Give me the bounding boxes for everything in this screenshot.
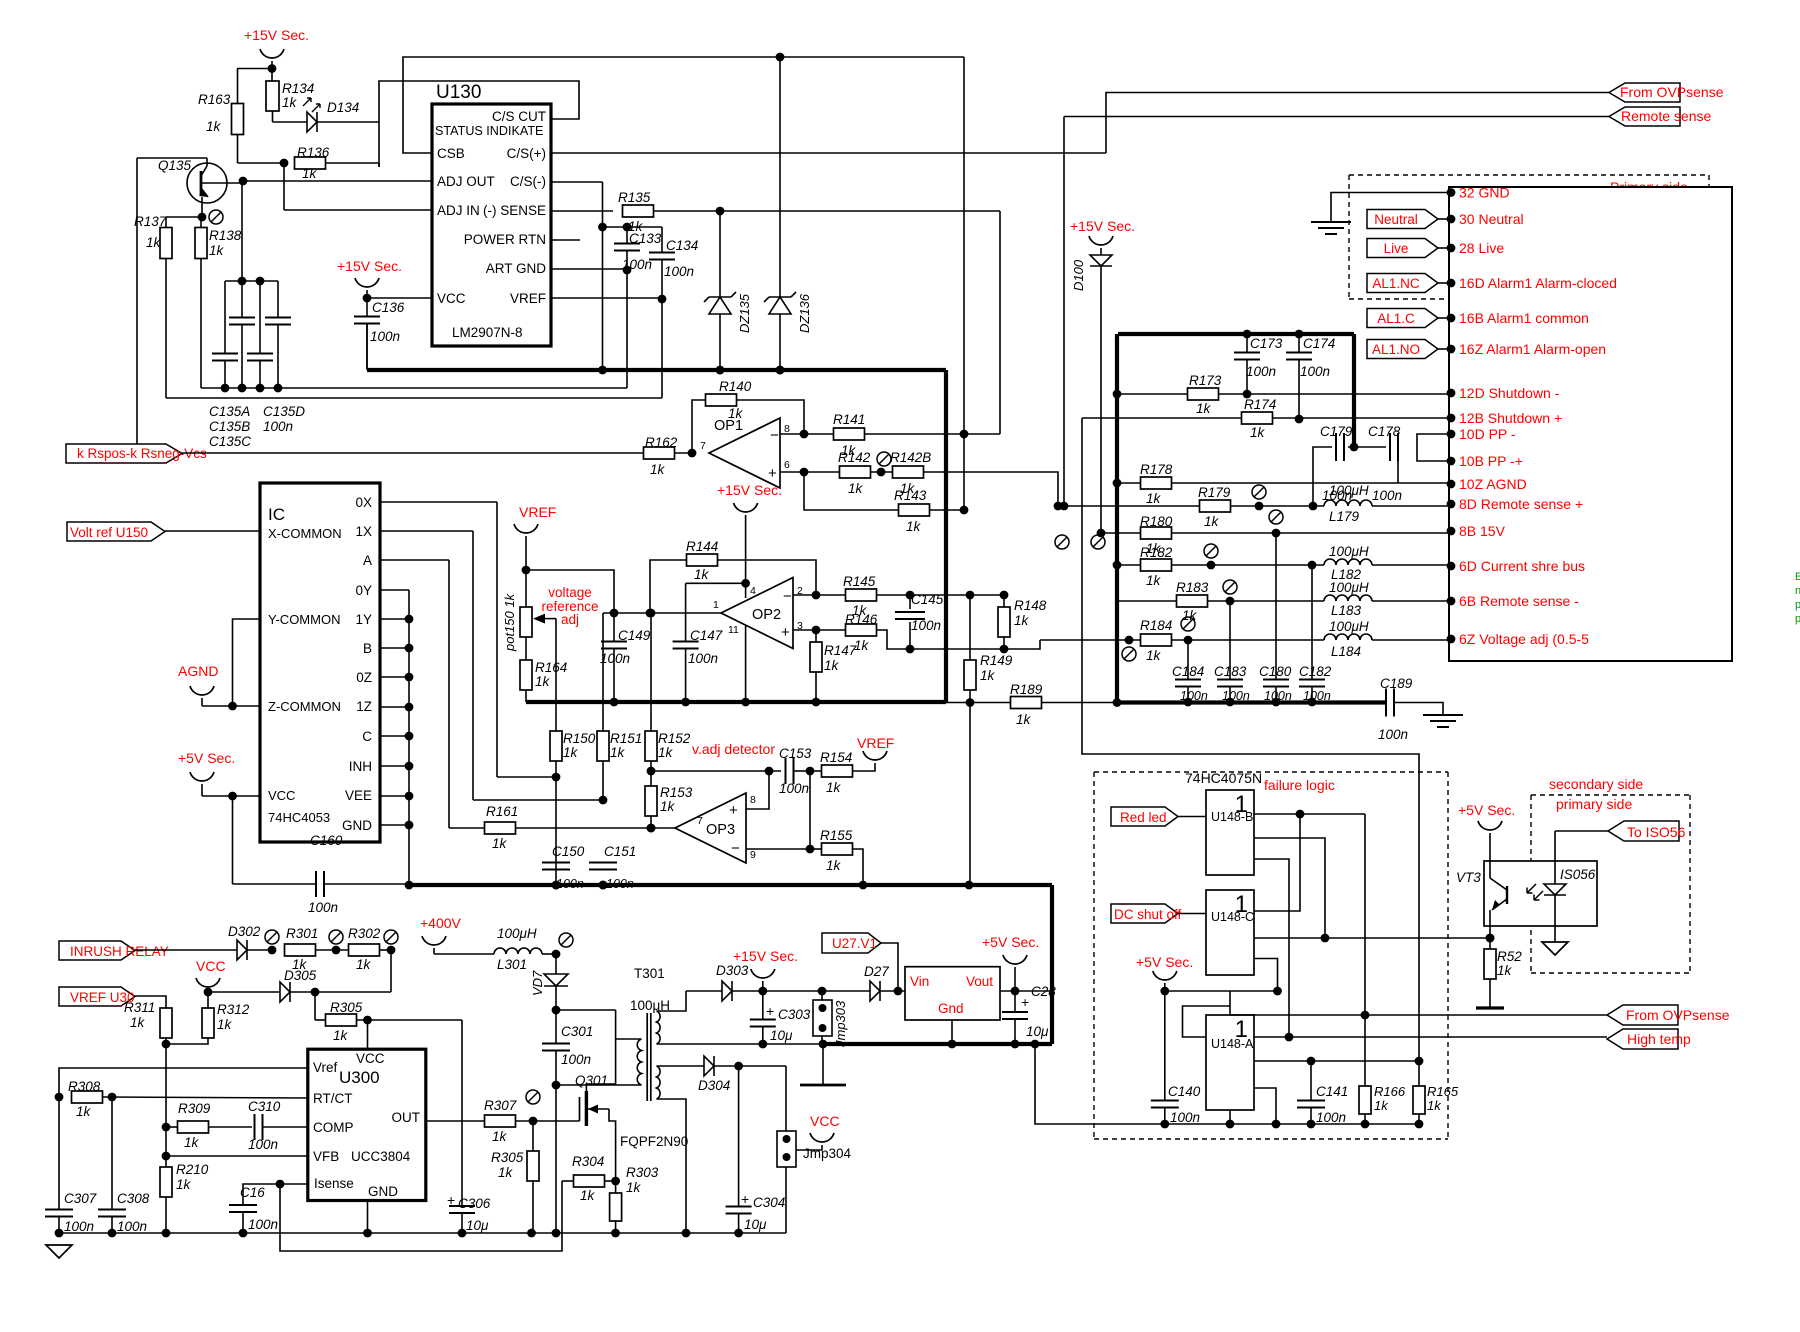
wire POWER RTN stub (551, 239, 580, 241)
svg-text:INH: INH (349, 759, 372, 774)
svg-text:1k: 1k (209, 243, 225, 258)
wire 0X (380, 501, 497, 503)
svg-text:From OVPsense: From OVPsense (1620, 84, 1724, 100)
svg-text:B: B (363, 641, 372, 656)
svg-text:High temp: High temp (1627, 1031, 1691, 1047)
opto LED arrows (1527, 884, 1536, 893)
svg-text:+: + (781, 624, 790, 641)
jumper Jmp304 (785, 1066, 787, 1131)
svg-text:VCC: VCC (810, 1113, 840, 1129)
svg-text:10Z AGND: 10Z AGND (1459, 476, 1527, 492)
svg-text:R303: R303 (626, 1165, 659, 1180)
svg-text:Vout: Vout (966, 974, 993, 989)
svg-text:1k: 1k (626, 1180, 642, 1195)
svg-text:16D Alarm1 Alarm-cloced: 16D Alarm1 Alarm-cloced (1459, 275, 1617, 291)
svg-text:100n: 100n (248, 1217, 278, 1232)
svg-text:Z-COMMON: Z-COMMON (268, 699, 341, 714)
LED D134 (307, 112, 317, 132)
svg-text:R141: R141 (833, 412, 865, 427)
svg-text:(-) SENSE: (-) SENSE (483, 203, 546, 218)
wire OP2 plus input (793, 629, 816, 631)
svg-text:1k: 1k (980, 668, 996, 683)
net flag AL1.C (1367, 309, 1438, 328)
svg-text:R140: R140 (719, 379, 752, 394)
svg-text:Vin: Vin (910, 974, 929, 989)
svg-text:R302: R302 (348, 926, 381, 941)
dashed secondary/primary boundary (1531, 794, 1690, 796)
svg-text:C135A: C135A (209, 404, 250, 419)
svg-text:n: n (1795, 585, 1800, 597)
svg-text:R52: R52 (1497, 949, 1522, 964)
wire corridor vertical x1064 (to 8D) (1063, 117, 1065, 507)
net flag Volt ref U150 (67, 522, 165, 541)
svg-text:C/S(+): C/S(+) (507, 146, 546, 161)
dashed box Primary side isolation (1349, 174, 1709, 176)
svg-text:1: 1 (713, 599, 719, 611)
wire U148-C stub route to +5V rail (1254, 959, 1278, 992)
svg-text:R311: R311 (124, 1000, 155, 1015)
svg-text:ADJ OUT: ADJ OUT (437, 174, 495, 189)
svg-text:100n: 100n (1170, 1110, 1200, 1125)
wire U148-B in3 route (1254, 859, 1289, 1037)
wire C/S(+) to Remote corridor (551, 152, 1106, 154)
wire D134 cathode to net (317, 121, 379, 123)
wire 0X net to R150 (497, 776, 556, 778)
wire U148-C output to VT3 (1254, 937, 1490, 939)
wire 6D node down to C182 (1311, 565, 1313, 679)
svg-text:100n: 100n (1372, 488, 1402, 503)
svg-text:U300: U300 (339, 1068, 380, 1087)
wire R134 to D134 (272, 111, 274, 122)
wire Vref pin (59, 1068, 308, 1097)
wire corridor vertical x964 (963, 57, 965, 510)
svg-text:100μH: 100μH (1329, 544, 1369, 559)
svg-text:100n: 100n (664, 264, 694, 279)
svg-text:1k: 1k (826, 858, 842, 873)
svg-text:+5V Sec.: +5V Sec. (1458, 802, 1515, 818)
svg-text:LM2907N-8: LM2907N-8 (452, 325, 523, 340)
wire VD7 node to drain riser (556, 1009, 616, 1011)
svg-text:R135: R135 (618, 190, 651, 205)
wire From OVPsense (1106, 93, 1609, 154)
capacitor C136 (363, 294, 372, 303)
svg-text:100n: 100n (561, 1052, 591, 1067)
svg-text:C134: C134 (666, 238, 698, 253)
svg-text:C135D: C135D (263, 404, 305, 419)
IC U300 UCC3804 (308, 1049, 426, 1200)
zener DZ135 (709, 296, 731, 298)
svg-text:1k: 1k (906, 519, 922, 534)
wire Jmp304 to bottom bus (785, 1167, 787, 1233)
svg-text:+5V Sec.: +5V Sec. (178, 750, 235, 766)
svg-text:1k: 1k (563, 745, 579, 760)
svg-text:+15V Sec.: +15V Sec. (244, 27, 309, 43)
wire thick bus y334 (1118, 332, 1354, 336)
svg-text:1k: 1k (498, 1165, 514, 1180)
svg-text:U148-B: U148-B (1211, 810, 1253, 824)
wire thick bus1 y702 left segment (526, 700, 946, 704)
svg-text:R210: R210 (176, 1162, 209, 1177)
wire U148-A stub y1088 to ground (1254, 1088, 1276, 1124)
svg-text:100n: 100n (1316, 1110, 1346, 1125)
net flag High temp (1607, 1029, 1678, 1049)
wire OP2 V+ pin4 (741, 579, 750, 588)
svg-text:+15V Sec.: +15V Sec. (717, 482, 782, 498)
net flag AL1.NO (1367, 340, 1438, 359)
svg-text:E: E (1795, 571, 1800, 583)
capacitor C306 (461, 1020, 463, 1206)
connector pin 16B Alarm1 common (1447, 314, 1456, 323)
svg-text:100n: 100n (263, 419, 293, 434)
connector pin 16D Alarm1 Alarm-cloced (1447, 279, 1456, 288)
svg-text:VCC: VCC (268, 788, 295, 803)
svg-text:U148-A: U148-A (1211, 1037, 1254, 1051)
svg-text:1k: 1k (610, 745, 626, 760)
wire U148-B output (1254, 813, 1365, 815)
connector pin 6Z Voltage adj (0.5-5 (1447, 635, 1456, 644)
capacitors C135A-C135D bank (241, 181, 243, 281)
svg-text:OP2: OP2 (752, 607, 781, 623)
wire Y-COMMON link (233, 619, 261, 706)
svg-text:1k: 1k (854, 638, 870, 653)
svg-text:1k: 1k (1146, 648, 1162, 663)
svg-text:C135B: C135B (209, 419, 250, 434)
svg-text:+: + (741, 1191, 749, 1207)
svg-text:6D Current shre bus: 6D Current shre bus (1459, 558, 1585, 574)
wire Vout node (1000, 990, 1051, 992)
svg-text:R147: R147 (824, 643, 857, 658)
svg-text:C135C: C135C (209, 434, 251, 449)
svg-text:Gnd: Gnd (938, 1001, 964, 1016)
svg-text:DC shut off: DC shut off (1114, 907, 1182, 922)
svg-text:U130: U130 (436, 82, 481, 103)
svg-text:VCC: VCC (196, 958, 226, 974)
connector J1 box (1449, 187, 1732, 661)
svg-text:28 Live: 28 Live (1459, 240, 1504, 256)
wire 10D/10B PP loop (1417, 434, 1451, 461)
svg-text:−: − (783, 588, 792, 605)
connector pin 16Z Alarm1 Alarm-open (1447, 345, 1456, 354)
svg-text:R182: R182 (1140, 545, 1173, 560)
svg-text:secondary side: secondary side (1549, 776, 1643, 792)
wire OUT to gate (426, 1120, 484, 1122)
svg-text:R145: R145 (843, 574, 876, 589)
connector pin 12B Shutdown + (1447, 414, 1456, 423)
svg-text:failure logic: failure logic (1264, 777, 1335, 793)
svg-text:C184: C184 (1172, 664, 1204, 679)
svg-text:1k: 1k (694, 567, 710, 582)
svg-text:C160: C160 (310, 833, 343, 848)
wire link to failure-logic ground (1035, 1044, 1165, 1124)
svg-text:C136: C136 (372, 300, 405, 315)
op-amp OP1 (688, 449, 697, 458)
wire D305 node to R305 (314, 992, 316, 1020)
svg-text:R309: R309 (178, 1101, 211, 1116)
svg-text:Red led: Red led (1120, 810, 1167, 825)
svg-text:C140: C140 (1168, 1084, 1201, 1099)
wire k-Rspos to R162 (182, 452, 644, 454)
wire +5V rail to gate A top (1165, 990, 1278, 992)
svg-text:R149: R149 (980, 653, 1013, 668)
svg-text:10μ: 10μ (744, 1217, 767, 1232)
svg-text:IC: IC (268, 505, 285, 524)
svg-text:11: 11 (728, 624, 739, 636)
svg-text:1k: 1k (1497, 963, 1513, 978)
wire R305 node down to U300 VCC (367, 1020, 369, 1049)
svg-text:p: p (1795, 613, 1800, 625)
svg-text:1k: 1k (492, 1129, 508, 1144)
svg-text:100n: 100n (1378, 727, 1408, 742)
svg-text:1k: 1k (1204, 514, 1220, 529)
wire thick bus y370 (ART GND rail) (366, 324, 368, 370)
svg-text:1k: 1k (824, 658, 840, 673)
svg-text:VCC: VCC (356, 1051, 385, 1066)
wire 1X net to R151 (473, 799, 603, 801)
wire OP3 output to R161 (449, 827, 675, 829)
svg-text:1k: 1k (650, 462, 666, 477)
svg-text:7: 7 (697, 815, 703, 827)
svg-text:−: − (770, 427, 779, 444)
net flag Live (1367, 239, 1438, 258)
ground symbol right of C189 (1394, 703, 1443, 716)
net flag k Rspos-k Rsneg-Vcs (136, 158, 138, 453)
svg-text:VFB: VFB (313, 1149, 339, 1164)
svg-text:100n: 100n (600, 651, 630, 666)
jumper Jmp303 (821, 991, 823, 1000)
svg-text:GND: GND (368, 1184, 398, 1199)
svg-text:GND: GND (342, 818, 372, 833)
svg-text:C304: C304 (753, 1195, 785, 1210)
svg-text:1k: 1k (333, 1028, 349, 1043)
svg-text:1k: 1k (282, 95, 298, 110)
ground bar R52 (1476, 1006, 1504, 1009)
svg-text:Isense: Isense (314, 1176, 354, 1191)
op-amp OP3 (675, 793, 746, 863)
svg-text:+15V Sec.: +15V Sec. (1070, 218, 1135, 234)
svg-text:1k: 1k (1250, 425, 1266, 440)
capacitor C147 (686, 582, 746, 584)
connector pin 8B 15V (1447, 527, 1456, 536)
svg-text:1k: 1k (848, 481, 864, 496)
wire thick x946 vertical (944, 370, 948, 702)
svg-text:0Z: 0Z (356, 670, 372, 685)
svg-text:R161: R161 (486, 804, 518, 819)
wire thick vertical x1354 (1352, 334, 1356, 447)
svg-text:1k: 1k (580, 1188, 596, 1203)
svg-text:9: 9 (750, 849, 756, 861)
svg-text:C178: C178 (1368, 424, 1401, 439)
wire OP1 minus input (780, 433, 804, 435)
wire A (380, 559, 449, 561)
svg-text:C180: C180 (1259, 664, 1292, 679)
wire 6Z node down to C184 (1187, 640, 1189, 679)
resistor R52 (1486, 934, 1495, 943)
svg-text:1k: 1k (826, 780, 842, 795)
capacitor C134 (627, 226, 662, 228)
svg-text:Volt ref U150: Volt ref U150 (70, 525, 148, 540)
svg-text:T301: T301 (634, 966, 665, 981)
svg-text:U27.V1: U27.V1 (832, 936, 877, 951)
svg-text:D304: D304 (698, 1078, 730, 1093)
svg-text:R151: R151 (610, 731, 642, 746)
svg-text:+5V Sec.: +5V Sec. (982, 934, 1039, 950)
svg-text:D134: D134 (327, 100, 359, 115)
wire +5V Z-route to gate A input (1183, 1006, 1231, 1037)
wire D303 rail y991 to D27 (763, 990, 870, 992)
svg-text:Neutral: Neutral (1374, 212, 1418, 227)
svg-text:10μ: 10μ (466, 1218, 489, 1233)
svg-text:DZ135: DZ135 (737, 293, 752, 333)
svg-text:1k: 1k (1182, 608, 1198, 623)
wire +15V to R134/R163 node (237, 68, 272, 70)
opto LED diode (1554, 831, 1556, 884)
svg-text:+: + (766, 1003, 774, 1019)
svg-text:L183: L183 (1331, 603, 1362, 618)
resistor R163 (237, 69, 239, 105)
connector pin 6D Current shre bus (1447, 562, 1456, 571)
wire OP2 minus input (793, 594, 816, 596)
svg-text:R301: R301 (286, 926, 318, 941)
wire C/S CUT loop (x379/x579) (379, 81, 579, 167)
svg-text:AL1.NO: AL1.NO (1372, 342, 1420, 357)
svg-text:R138: R138 (209, 228, 242, 243)
svg-text:adj: adj (561, 612, 579, 627)
wire VREF to OP2-output link (526, 570, 614, 641)
svg-text:1k: 1k (1427, 1098, 1442, 1113)
transistor VT3 inside opto (1506, 886, 1508, 904)
svg-text:Q135: Q135 (158, 158, 192, 173)
wire C145 bottom row to 6Z jog (910, 640, 1040, 649)
svg-text:100n: 100n (64, 1219, 94, 1234)
svg-text:X-COMMON: X-COMMON (268, 526, 342, 541)
connector pin 12D Shutdown - (1447, 389, 1456, 398)
wire R302 to D305 node (390, 950, 392, 992)
svg-text:RT/CT: RT/CT (313, 1091, 353, 1106)
svg-text:CSB: CSB (437, 146, 465, 161)
wire OP1 plus input (780, 471, 804, 473)
wire failure-logic ground bus (1165, 1123, 1419, 1125)
svg-text:A: A (363, 553, 372, 568)
wire 1X (380, 530, 473, 532)
svg-text:+: + (1021, 994, 1029, 1010)
net flag From OVPsense (top) (1609, 83, 1680, 102)
svg-text:Remote sense: Remote sense (1621, 108, 1711, 124)
svg-text:8: 8 (750, 794, 756, 806)
wire gate A bottom to ground bus (1229, 1110, 1231, 1124)
svg-text:100n: 100n (688, 651, 718, 666)
wire thick link bus2 to bottom (1050, 885, 1054, 1044)
connector pin 10Z AGND (1447, 480, 1456, 489)
svg-text:R178: R178 (1140, 462, 1173, 477)
svg-text:100n: 100n (779, 781, 809, 796)
svg-text:R152: R152 (658, 731, 691, 746)
wire Isense return loop (280, 1181, 562, 1251)
svg-text:12D Shutdown -: 12D Shutdown - (1459, 385, 1560, 401)
svg-text:DZ136: DZ136 (797, 293, 812, 333)
svg-text:C182: C182 (1299, 664, 1332, 679)
resistor R134 (266, 81, 279, 111)
svg-text:INRUSH RELAY: INRUSH RELAY (70, 944, 169, 959)
svg-text:D100: D100 (1071, 259, 1086, 291)
wire (-)SENSE riser x1000 (999, 211, 1001, 434)
wire 8B node down to C180 (1275, 533, 1277, 679)
svg-text:R153: R153 (660, 785, 693, 800)
wire A net riser (448, 560, 450, 828)
svg-text:R163: R163 (198, 92, 231, 107)
wire OP2 V- pin11 to bus (745, 626, 747, 702)
svg-text:R144: R144 (686, 539, 718, 554)
net flag VREF U30 (59, 987, 135, 1006)
svg-text:12B Shutdown +: 12B Shutdown + (1459, 410, 1562, 426)
svg-text:100n: 100n (370, 329, 400, 344)
svg-text:R179: R179 (1198, 485, 1231, 500)
svg-text:R184: R184 (1140, 618, 1172, 633)
net flag To ISO56 (1555, 830, 1608, 832)
ground bar below Jmp303 (819, 1040, 828, 1049)
svg-text:AL1.C: AL1.C (1377, 311, 1415, 326)
svg-text:1k: 1k (217, 1017, 233, 1032)
svg-text:16Z Alarm1 Alarm-open: 16Z Alarm1 Alarm-open (1459, 341, 1606, 357)
svg-text:+: + (729, 802, 738, 819)
svg-text:L301: L301 (497, 957, 527, 972)
svg-text:R173: R173 (1189, 373, 1222, 388)
svg-text:IS056: IS056 (1560, 867, 1596, 882)
wire U148-A output / High temp (1254, 1036, 1607, 1038)
wire 6B node down to C183 (1229, 601, 1231, 679)
svg-text:0X: 0X (355, 495, 372, 510)
zener DZ136 (769, 296, 791, 298)
wire OP3 minus input (746, 848, 810, 850)
svg-text:D305: D305 (284, 968, 317, 983)
wire ART-GND bus y398 to R137 (166, 397, 662, 399)
op-amp OP2 (721, 578, 793, 649)
svg-text:74HC4053: 74HC4053 (268, 810, 330, 825)
svg-text:L179: L179 (1329, 509, 1360, 524)
net flag AL1.NC (1367, 274, 1438, 293)
svg-text:To ISO56: To ISO56 (1627, 824, 1686, 840)
junction Q135 emitter node (198, 213, 207, 222)
svg-text:R142B: R142B (890, 450, 931, 465)
svg-text:primary side: primary side (1556, 796, 1632, 812)
wire Q135 base to ADJ OUT (201, 182, 243, 184)
capacitor C174 (1295, 330, 1304, 339)
svg-text:100n: 100n (117, 1219, 147, 1234)
svg-text:+15V Sec.: +15V Sec. (337, 258, 402, 274)
svg-text:C151: C151 (604, 844, 636, 859)
connector pin 10B PP -+ (1447, 457, 1456, 466)
net flag INRUSH RELAY (59, 941, 135, 960)
wire IC right-side grounded pins to bus x409 (408, 590, 410, 885)
svg-text:R304: R304 (572, 1154, 604, 1169)
svg-text:1k: 1k (660, 799, 676, 814)
wire C135 bottom bus y388 (201, 387, 627, 389)
svg-text:100n: 100n (248, 1137, 278, 1152)
svg-text:UCC3804: UCC3804 (351, 1149, 411, 1164)
svg-text:Live: Live (1384, 241, 1409, 256)
svg-text:VT3: VT3 (1456, 870, 1481, 885)
svg-text:VREF: VREF (519, 504, 556, 520)
wire VFB (162, 1152, 171, 1161)
svg-text:VREF: VREF (510, 291, 546, 306)
svg-text:ADJ IN: ADJ IN (437, 203, 480, 218)
svg-text:v.adj detector: v.adj detector (692, 741, 775, 757)
IC U1 74HC4053 (260, 483, 380, 842)
connector pin 30 Neutral (1447, 215, 1456, 224)
net flag DC shut off (1111, 904, 1178, 923)
svg-text:74HC4075N: 74HC4075N (1185, 770, 1262, 786)
regulator U27 box (905, 967, 1000, 1020)
svg-text:R165: R165 (1427, 1084, 1459, 1099)
